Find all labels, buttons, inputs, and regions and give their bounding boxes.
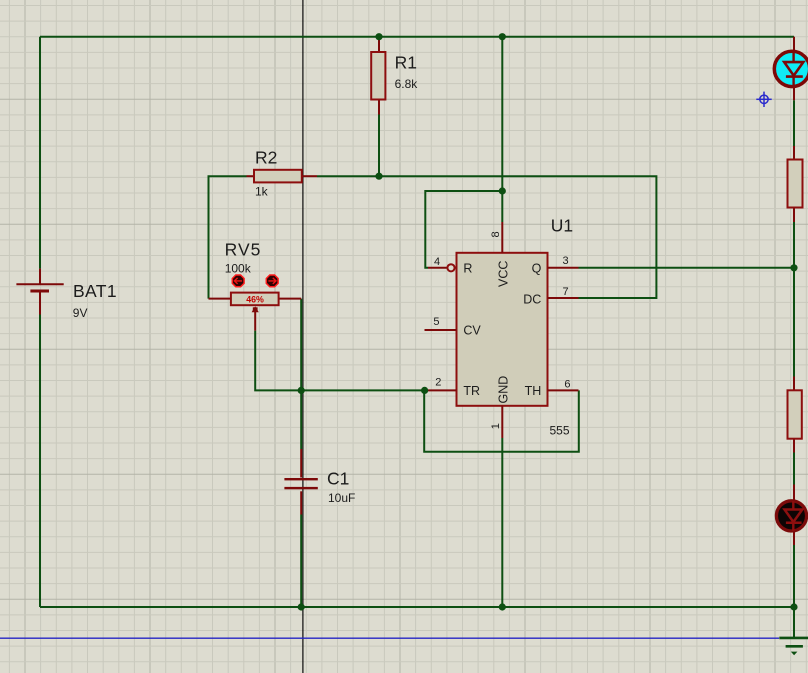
wire C1 bottom to ground rail bbox=[300, 515, 302, 608]
RV5 decrement button bbox=[232, 275, 244, 287]
svg-text:10uF: 10uF bbox=[328, 491, 355, 505]
LED D2 cathode stub bbox=[793, 532, 795, 545]
wire VCC drop to pin 8 bbox=[501, 37, 503, 222]
svg-text:6.8k: 6.8k bbox=[395, 77, 419, 91]
potentiometer RV5 left stub bbox=[209, 298, 232, 300]
svg-text:C1: C1 bbox=[327, 468, 349, 488]
op IC U1 555 body bbox=[457, 253, 548, 406]
junction node C1 top / TR wire bbox=[298, 387, 305, 394]
svg-text:U1: U1 bbox=[551, 216, 573, 236]
junction node R1 bottom / R2 wire bbox=[375, 173, 382, 180]
svg-text:TR: TR bbox=[463, 384, 480, 398]
wire RV5 wiper to TR line bbox=[255, 331, 424, 391]
wire TR-TH bridge box bbox=[424, 390, 579, 451]
capacitor C1 plate bottom bbox=[284, 487, 317, 489]
capacitor C1 plate top bbox=[284, 478, 317, 480]
wire left rail lower (battery - to ground rail) bbox=[39, 315, 41, 608]
ground symbol bbox=[779, 638, 808, 646]
svg-text:CV: CV bbox=[463, 324, 481, 338]
svg-text:8: 8 bbox=[490, 231, 502, 237]
wire RV5 right terminal down to TR node and C1 bbox=[300, 299, 302, 449]
resistor R4 pin stub top bbox=[793, 377, 795, 391]
svg-text:6: 6 bbox=[564, 379, 570, 391]
svg-text:BAT1: BAT1 bbox=[73, 281, 117, 301]
svg-text:5: 5 bbox=[433, 316, 439, 328]
wire R1 bottom to node A bbox=[378, 115, 380, 177]
resistor R2 pin stub right bbox=[302, 175, 318, 177]
svg-text:R2: R2 bbox=[255, 147, 277, 167]
wire bottom ground rail bbox=[40, 606, 794, 608]
svg-text:TH: TH bbox=[525, 384, 542, 398]
svg-text:DC: DC bbox=[523, 292, 541, 306]
LED D1 cathode stub bbox=[793, 87, 795, 100]
resistor R3 body bbox=[788, 160, 803, 208]
resistor R2 body bbox=[254, 170, 302, 183]
battery BAT1 plate short bbox=[30, 290, 49, 293]
resistor R1 pin stub bottom bbox=[378, 99, 380, 115]
wire right column segments bbox=[793, 100, 795, 146]
pin 3 red stub bbox=[548, 267, 579, 269]
svg-text:7: 7 bbox=[563, 286, 569, 298]
LED D2 anode stub bbox=[793, 485, 795, 501]
wire left rail upper (VCC to battery +) bbox=[39, 37, 41, 269]
sheet boundary bottom blue line bbox=[0, 637, 779, 639]
svg-text:2: 2 bbox=[435, 376, 441, 388]
svg-text:Q: Q bbox=[532, 262, 542, 276]
svg-text:R: R bbox=[463, 262, 472, 276]
wire node A to DC pin 7 bbox=[317, 176, 656, 298]
LED D1 anode stub bbox=[793, 37, 795, 51]
svg-text:RV5: RV5 bbox=[225, 240, 261, 260]
pin 2 red stub bbox=[428, 389, 457, 391]
junction node C1 bottom rail bbox=[298, 603, 305, 610]
pin 1 red stub bbox=[501, 406, 503, 438]
junction node pin 8 feed bbox=[499, 187, 506, 194]
resistor R1 pin stub top bbox=[378, 37, 380, 53]
pin 6 red stub bbox=[548, 389, 579, 391]
capacitor C1 pin stub top bbox=[300, 449, 302, 478]
resistor R4 pin stub bottom bbox=[793, 438, 795, 452]
junction node right column bottom rail bbox=[790, 603, 797, 610]
junction node R1 top rail bbox=[375, 33, 382, 40]
resistor R1 body bbox=[371, 52, 385, 100]
wire top VCC rail bbox=[40, 36, 794, 38]
resistor R2 pin stub left bbox=[247, 175, 255, 177]
battery BAT1 pin stub bottom bbox=[39, 291, 41, 315]
RV5 wiper stub bbox=[254, 311, 256, 331]
pin 8 red stub bbox=[501, 222, 503, 253]
svg-text:555: 555 bbox=[550, 424, 570, 438]
potentiometer RV5 right stub bbox=[278, 298, 301, 300]
junction node pin 1 bottom rail bbox=[499, 603, 506, 610]
svg-text:3: 3 bbox=[563, 255, 569, 267]
LED D2 (off, dark) bbox=[776, 501, 806, 531]
resistor R3 pin stub bottom bbox=[793, 207, 795, 222]
pin 5 red stub (CV, unconnected) bbox=[425, 329, 457, 331]
svg-text:46%: 46% bbox=[246, 295, 264, 305]
svg-text:1k: 1k bbox=[255, 185, 269, 199]
svg-text:4: 4 bbox=[434, 256, 440, 268]
RV5 wiper arrowhead bbox=[252, 306, 259, 312]
potentiometer RV5 body bbox=[231, 293, 279, 306]
svg-text:100k: 100k bbox=[225, 261, 252, 275]
capacitor C1 pin stub bottom bbox=[300, 491, 302, 514]
LED D1 (lit cyan) bbox=[774, 51, 808, 86]
battery BAT1 plate long bbox=[16, 283, 63, 285]
resistor R4 body bbox=[788, 390, 802, 438]
svg-text:R1: R1 bbox=[395, 53, 417, 73]
svg-text:1: 1 bbox=[490, 423, 502, 429]
sheet boundary vertical black line bbox=[302, 0, 304, 673]
resistor R3 pin stub top bbox=[793, 146, 795, 160]
junction node Q wire / right column bbox=[790, 264, 797, 271]
blue origin crosshair marker bbox=[756, 92, 771, 107]
wire Q pin 3 to right column bbox=[579, 267, 795, 269]
junction node TR pin 2 bbox=[421, 387, 428, 394]
svg-text:9V: 9V bbox=[73, 306, 88, 320]
junction node VCC drop top rail bbox=[499, 33, 506, 40]
pin 7 red stub bbox=[548, 297, 579, 299]
U1 pin 4 inversion bubble bbox=[447, 264, 454, 271]
battery BAT1 pin stub top bbox=[39, 269, 41, 284]
RV5 increment button bbox=[266, 275, 278, 287]
svg-text:VCC: VCC bbox=[497, 261, 511, 287]
svg-text:GND: GND bbox=[497, 376, 511, 404]
U1 pin 4 stub bbox=[428, 267, 447, 269]
wire pin 1 to ground rail bbox=[501, 438, 503, 607]
wire R2 left to RV5 bbox=[209, 176, 247, 298]
wire pin8 node to pin 4 (R) bbox=[425, 191, 502, 268]
